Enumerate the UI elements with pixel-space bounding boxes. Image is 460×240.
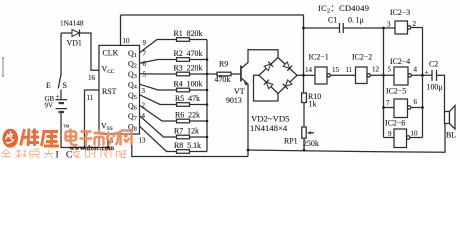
wire Q5 diagonal	[140, 95, 177, 105]
wire battery to ground bus	[61, 113, 108, 147]
svg-text:11: 11	[346, 66, 353, 74]
resistor R2	[177, 58, 190, 62]
battery GB 9V	[56, 99, 68, 101]
svg-text:2: 2	[413, 20, 417, 28]
svg-text:11: 11	[87, 94, 94, 102]
input bus	[383, 28, 385, 138]
svg-text:VD1: VD1	[67, 39, 82, 48]
svg-text:R6 22k: R6 22k	[175, 111, 200, 120]
svg-text:R4 100k: R4 100k	[174, 80, 203, 89]
switch S	[60, 33, 62, 75]
svg-text:IC2−2: IC2−2	[352, 53, 372, 62]
svg-text:10: 10	[411, 130, 419, 138]
svg-text:5: 5	[143, 71, 147, 79]
wire Q6 diagonal	[140, 105, 177, 121]
wire top bus CLK to node X	[121, 15, 304, 93]
svg-text:15: 15	[332, 66, 340, 74]
svg-text:IC2−5: IC2−5	[386, 87, 406, 96]
svg-text:3: 3	[142, 87, 146, 95]
watermark dianzi shichang wang chars	[66, 129, 132, 147]
svg-text:R2 470k: R2 470k	[174, 49, 203, 58]
svg-text:7: 7	[143, 50, 147, 58]
svg-text:1N4148: 1N4148	[60, 19, 84, 28]
svg-text:R8 5.1k: R8 5.1k	[174, 141, 201, 150]
svg-text:0. 1μ: 0. 1μ	[348, 16, 364, 25]
wire Q4 diagonal	[140, 84, 177, 90]
diode bottom-right	[283, 80, 292, 89]
svg-text:VD2~VD5: VD2~VD5	[251, 114, 289, 124]
svg-text:16: 16	[88, 74, 96, 82]
left edge scan mark	[2, 58, 4, 76]
node X junction	[302, 74, 305, 77]
svg-text:14: 14	[305, 66, 313, 74]
node emitter-ground	[247, 149, 250, 152]
watermark bottom slogan	[2, 149, 127, 158]
svg-text:BL: BL	[446, 131, 456, 140]
svg-text:9013: 9013	[226, 96, 242, 105]
resistor R1	[177, 38, 190, 42]
svg-text:E: E	[46, 81, 51, 90]
svg-text:9V: 9V	[45, 102, 54, 110]
wire Q3 diagonal	[140, 73, 177, 75]
svg-text:CLK: CLK	[103, 49, 119, 58]
wire bridge right corner	[297, 74, 304, 76]
svg-text:IC2−3: IC2−3	[390, 8, 410, 17]
svg-text:1k: 1k	[309, 100, 317, 109]
resistor R7	[177, 135, 190, 139]
wire IC1 pin13 ground	[132, 134, 248, 157]
svg-text:7: 7	[386, 99, 390, 107]
transistor VT 9013	[240, 66, 242, 82]
svg-text:IC2−1: IC2−1	[309, 53, 329, 62]
svg-text:RST: RST	[102, 87, 117, 96]
svg-text:C2: C2	[429, 60, 438, 69]
svg-text:R3 220k: R3 220k	[174, 64, 203, 73]
svg-text:C1: C1	[328, 16, 337, 25]
wire Q1 diagonal	[140, 40, 177, 53]
resistor R5	[177, 103, 190, 107]
svg-text:10: 10	[123, 37, 131, 45]
wire Q2 diagonal	[140, 60, 177, 64]
capacitor C1	[304, 27, 384, 29]
wire CLK pin	[120, 15, 122, 45]
diode top-right	[283, 62, 292, 71]
svg-text:+: +	[56, 93, 60, 101]
svg-text:+: +	[425, 68, 430, 77]
IC1 counter box	[99, 45, 140, 134]
wire Q7 diagonal	[140, 116, 177, 137]
wire bridge left corner loop	[254, 75, 279, 101]
resistor R6	[177, 119, 190, 123]
svg-text:1N4148×4: 1N4148×4	[250, 123, 288, 133]
svg-text:12: 12	[372, 66, 380, 74]
wire Q8 diagonal	[140, 126, 177, 151]
diode VD1 wire	[61, 33, 99, 70]
wire RST pin	[85, 90, 100, 148]
wire resistor bus	[206, 40, 208, 152]
svg-text:R9: R9	[219, 60, 228, 69]
resistor R10	[302, 93, 307, 103]
svg-text:100μ: 100μ	[427, 83, 443, 92]
resistor R4	[177, 88, 190, 92]
watermark logo	[2, 129, 18, 148]
svg-text:IC2：CD4049: IC2：CD4049	[318, 4, 369, 14]
svg-text:R7 12k: R7 12k	[174, 127, 199, 136]
svg-text:TM: TM	[63, 124, 70, 129]
speaker BL	[445, 112, 450, 124]
svg-text:9: 9	[388, 130, 392, 138]
diode bridge VD2~VD5	[259, 58, 297, 94]
node RST-ground	[83, 146, 86, 149]
resistor R8	[177, 150, 190, 154]
svg-text:IC2−6: IC2−6	[385, 119, 405, 128]
wire VSS pin 8	[107, 134, 109, 148]
svg-text:VT: VT	[234, 87, 245, 96]
resistor R9	[207, 73, 217, 75]
svg-text:250k: 250k	[303, 139, 319, 148]
svg-text:4: 4	[414, 66, 418, 74]
svg-text:6: 6	[414, 98, 418, 106]
diode top-left	[264, 62, 273, 71]
svg-text:IC2−4: IC2−4	[390, 57, 410, 66]
svg-text:3: 3	[387, 21, 391, 29]
svg-text:13: 13	[139, 137, 147, 145]
svg-text:R5 47k: R5 47k	[175, 94, 200, 103]
svg-text:RP1: RP1	[284, 137, 298, 146]
svg-text:470k: 470k	[215, 75, 231, 84]
svg-text:5: 5	[388, 66, 392, 74]
svg-text:S: S	[63, 81, 67, 90]
svg-text:R1 820k: R1 820k	[174, 29, 203, 38]
diode bottom-left	[264, 80, 273, 89]
diode VD1	[72, 30, 80, 37]
svg-text:6: 6	[143, 60, 147, 68]
potentiometer RP1	[302, 127, 306, 138]
svg-text:I C: I C	[56, 151, 75, 160]
resistor R3	[177, 72, 190, 76]
watermark weiku chars	[21, 129, 60, 147]
svg-text:9: 9	[143, 39, 147, 47]
